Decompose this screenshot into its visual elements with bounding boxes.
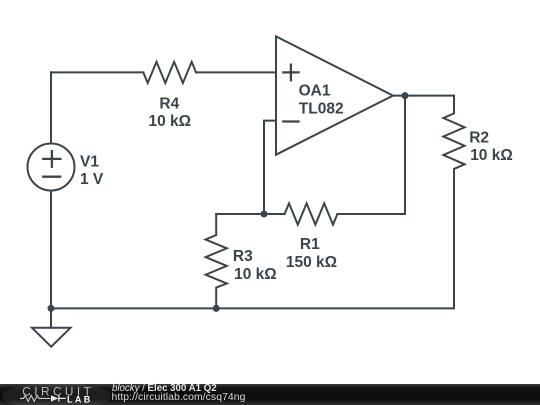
op-amp + input marker: [283, 65, 298, 81]
logo resistor squiggle: [20, 395, 51, 401]
resistor R2: [443, 96, 464, 309]
wire op-amp output: [393, 95, 454, 97]
op-amp OA1 triangle: [276, 36, 393, 154]
logo glow: [2, 383, 112, 405]
op-amp - input marker: [283, 120, 298, 122]
node at op-amp output: [402, 92, 409, 99]
resistor R3: [206, 214, 227, 308]
footer credit line 2: [112, 393, 246, 402]
svg-text:R3: R3: [233, 248, 253, 265]
svg-text:1 V: 1 V: [80, 171, 104, 188]
svg-text:150 kΩ: 150 kΩ: [286, 254, 337, 271]
ground symbol: [32, 328, 71, 347]
svg-text:R2: R2: [469, 130, 489, 147]
svg-text:OA1: OA1: [299, 83, 331, 100]
ground lead: [50, 308, 52, 327]
svg-text:LAB: LAB: [67, 395, 93, 405]
wire bottom rail: [51, 307, 454, 309]
svg-text:10 kΩ: 10 kΩ: [148, 113, 191, 130]
wire R4 to op-amp + input: [196, 71, 276, 73]
svg-text:V1: V1: [80, 153, 99, 170]
footer credit line 1: [112, 384, 217, 393]
V1 polarity marks: [43, 151, 60, 177]
logo diode: [51, 395, 58, 401]
svg-text:R4: R4: [159, 95, 179, 112]
svg-text:TL082: TL082: [299, 100, 344, 117]
svg-text:10 kΩ: 10 kΩ: [470, 147, 513, 164]
node at R3 bottom: [213, 305, 220, 312]
wire node to R1: [264, 213, 285, 215]
resistor R4: [143, 62, 196, 83]
wire top horizontal to R4: [51, 71, 143, 73]
wire R1 to feedback: [337, 213, 405, 215]
wire inverting input: [264, 121, 276, 214]
node at ground junction: [48, 305, 55, 312]
node at inverting junction: [261, 211, 268, 218]
wire node to R3: [216, 213, 264, 215]
voltage source V1: [28, 144, 75, 191]
wire feedback vertical: [404, 96, 406, 214]
svg-text:10 kΩ: 10 kΩ: [234, 266, 277, 283]
wire V1 to bottom rail: [50, 191, 52, 309]
footer bar: [0, 384, 540, 405]
wire V1 top lead: [50, 72, 52, 143]
svg-text:R1: R1: [300, 236, 320, 253]
resistor R1: [285, 203, 338, 224]
